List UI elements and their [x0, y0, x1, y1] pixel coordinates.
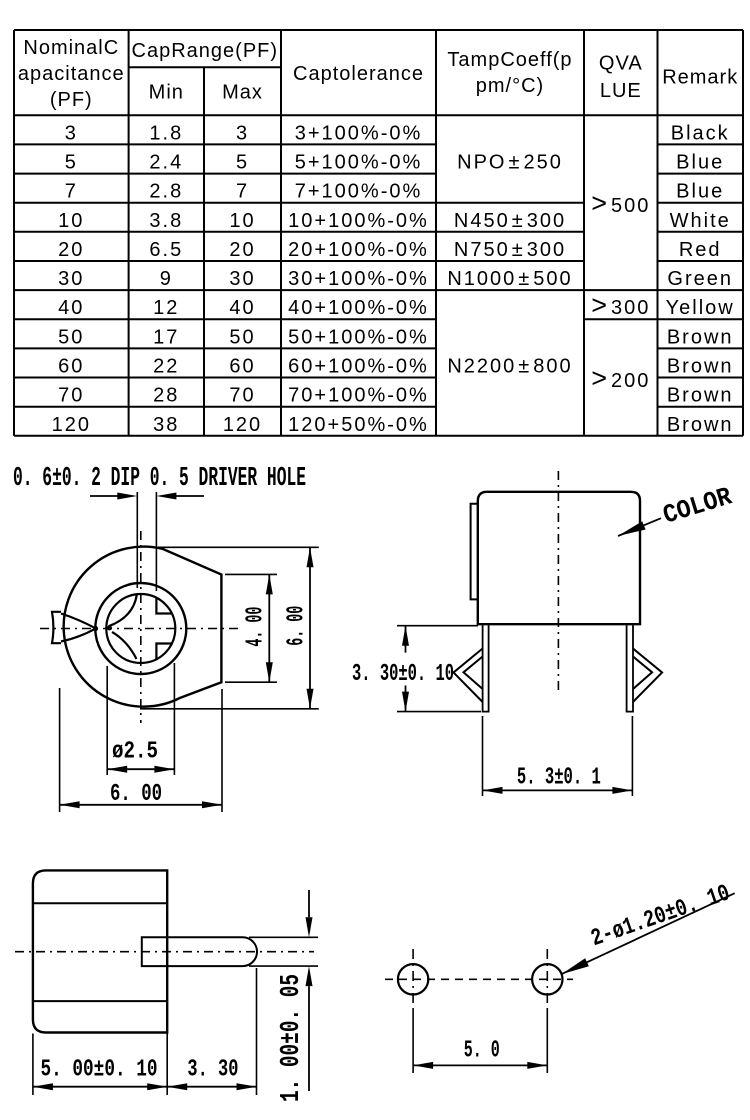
side view: body — [478, 492, 640, 624]
svg-text:50: 50 — [229, 326, 255, 348]
svg-text:1. 00±0. 05: 1. 00±0. 05 — [277, 974, 307, 1102]
svg-text:10+100%-0%: 10+100%-0% — [288, 210, 429, 232]
svg-text:7: 7 — [65, 181, 78, 203]
side view: 3.30 extension lines — [397, 625, 478, 627]
svg-text:50+100%-0%: 50+100%-0% — [288, 326, 429, 348]
bottom view: right hole vertical centerline — [546, 949, 548, 1005]
top view: dia 2.5 dimension line — [107, 768, 174, 770]
top view: extension line top of 4.00 — [225, 573, 277, 575]
svg-text:70: 70 — [229, 385, 255, 407]
svg-text:3: 3 — [236, 122, 249, 144]
svg-text:3. 30±0. 10: 3. 30±0. 10 — [352, 661, 454, 688]
side view: right wing — [633, 649, 662, 703]
svg-text:7+100%-0%: 7+100%-0% — [295, 181, 423, 203]
svg-text:120+50%-0%: 120+50%-0% — [288, 414, 429, 436]
svg-text:NominalC: NominalC — [23, 37, 119, 59]
profile view: 3.30 dimension line — [167, 1086, 256, 1088]
svg-text:2.8: 2.8 — [149, 181, 183, 203]
svg-text:40+100%-0%: 40+100%-0% — [288, 297, 429, 319]
svg-text:6. 00: 6. 00 — [110, 781, 162, 808]
top view: extension line top of 6.00 — [158, 546, 319, 548]
svg-text:60+100%-0%: 60+100%-0% — [288, 356, 429, 378]
bottom view: 5.0 dimension line — [413, 1064, 547, 1066]
svg-text:70+100%-0%: 70+100%-0% — [288, 385, 429, 407]
svg-text:17: 17 — [153, 326, 179, 348]
svg-text:60: 60 — [58, 356, 84, 378]
svg-text:50: 50 — [58, 326, 84, 348]
bottom view: extension lines — [412, 1008, 414, 1073]
top view: rotor slot right arm — [156, 598, 172, 659]
svg-text:Min: Min — [149, 82, 184, 104]
svg-text:5. 0: 5. 0 — [464, 1038, 500, 1065]
top view: extension line bottom of 6.00 — [140, 708, 319, 710]
svg-text:30: 30 — [58, 268, 84, 290]
svg-text:3: 3 — [65, 122, 78, 144]
svg-text:Green: Green — [667, 268, 733, 290]
svg-text:QVA: QVA — [599, 53, 643, 75]
svg-text:ø2.5: ø2.5 — [112, 739, 158, 766]
svg-text:28: 28 — [153, 385, 179, 407]
side view: 5.3 extension lines — [482, 716, 484, 796]
svg-text:5: 5 — [236, 152, 249, 174]
svg-text:0. 6±0. 2 DIP 0. 5 DRIVER HOLE: 0. 6±0. 2 DIP 0. 5 DRIVER HOLE — [13, 464, 306, 494]
svg-text:Blue: Blue — [676, 181, 724, 203]
side view: vertical centerline — [557, 471, 559, 692]
side view: COLOR leader — [618, 518, 661, 536]
svg-text:Black: Black — [671, 122, 730, 144]
svg-text:N2200±800: N2200±800 — [447, 356, 572, 378]
bottom view: hole spec leader — [562, 893, 735, 974]
profile view: body seam lines — [33, 902, 167, 904]
svg-text:(PF): (PF) — [50, 89, 93, 111]
svg-text:120: 120 — [52, 414, 91, 436]
top view: beak tip dot — [93, 626, 98, 631]
profile view: 5.00 extension lines — [32, 1034, 34, 1096]
svg-text:Blue: Blue — [676, 152, 724, 174]
svg-text:40: 40 — [58, 297, 84, 319]
top view: horizontal centerline — [40, 628, 238, 630]
svg-text:TampCoeff(p: TampCoeff(p — [447, 49, 572, 71]
profile view: 3.30 extension line — [256, 968, 258, 1095]
svg-text:70: 70 — [58, 385, 84, 407]
svg-text:apacitance: apacitance — [18, 63, 125, 85]
bottom view: left pin hole — [398, 964, 428, 994]
svg-text:40: 40 — [229, 297, 255, 319]
svg-text:20+100%-0%: 20+100%-0% — [288, 239, 429, 261]
svg-text:NPO±250: NPO±250 — [457, 152, 563, 174]
svg-text:20: 20 — [58, 239, 84, 261]
svg-text:Red: Red — [679, 239, 722, 261]
svg-text:4. 00: 4. 00 — [243, 607, 270, 647]
top view: dimension 4.00 line — [268, 574, 270, 682]
top view: body outline — [64, 547, 222, 707]
top view: rotor slot top-left curve — [109, 595, 137, 627]
svg-text:Captolerance: Captolerance — [293, 63, 424, 85]
profile view: body — [33, 870, 167, 1032]
svg-text:3+100%-0%: 3+100%-0% — [295, 122, 423, 144]
svg-text:22: 22 — [153, 356, 179, 378]
svg-text:6. 00: 6. 00 — [284, 606, 311, 646]
top view: 6.00 width extension lines — [59, 688, 61, 812]
svg-text:30+100%-0%: 30+100%-0% — [288, 268, 429, 290]
bottom view: horizontal centerline — [385, 978, 573, 980]
profile view: centerline — [15, 951, 314, 953]
svg-text:Yellow: Yellow — [666, 297, 735, 319]
svg-text:2.4: 2.4 — [149, 152, 183, 174]
side view: left color band tab — [471, 504, 478, 600]
top view: rotor slot bottom-left arc — [112, 632, 137, 659]
side view: 5.3 dimension line — [483, 789, 633, 791]
svg-text:12: 12 — [153, 297, 179, 319]
profile view: 1.00 dimension line — [308, 890, 310, 917]
svg-text:5. 3±0. 1: 5. 3±0. 1 — [517, 765, 601, 792]
profile view: pin — [142, 937, 257, 966]
top view: rotor ring circle — [95, 583, 186, 674]
svg-text:3.8: 3.8 — [149, 210, 183, 232]
top view: left beak bar — [52, 612, 61, 643]
top view: 6.00 width dimension line — [60, 804, 222, 806]
svg-text:5+100%-0%: 5+100%-0% — [295, 152, 423, 174]
top view: slot dimension arrows — [90, 495, 118, 497]
side view: 3.30 dimension line — [405, 626, 407, 653]
bottom view: left hole vertical centerline — [412, 949, 414, 1005]
svg-text:1.8: 1.8 — [149, 122, 183, 144]
side view: left leg — [483, 625, 489, 711]
svg-text:Brown: Brown — [667, 356, 734, 378]
side view: right leg — [627, 625, 633, 711]
svg-text:38: 38 — [153, 414, 179, 436]
svg-text:Brown: Brown — [667, 385, 734, 407]
svg-text:N1000±500: N1000±500 — [447, 268, 572, 290]
svg-text:White: White — [670, 210, 731, 232]
svg-text:5: 5 — [65, 152, 78, 174]
top view: rotor slot junction dot — [107, 626, 112, 631]
svg-text:60: 60 — [229, 356, 255, 378]
svg-text:120: 120 — [223, 414, 262, 436]
bottom view: right pin hole — [532, 964, 562, 994]
svg-text:20: 20 — [229, 239, 255, 261]
top view: left beak lower edge — [61, 629, 95, 642]
profile view: 5.00 dimension line — [33, 1086, 167, 1088]
svg-text:LUE: LUE — [600, 80, 642, 102]
svg-text:Max: Max — [222, 82, 263, 104]
top view: dimension 6.00 vertical line — [309, 547, 311, 709]
top view: vertical centerline — [140, 531, 142, 723]
svg-text:5. 00±0. 10: 5. 00±0. 10 — [41, 1057, 158, 1084]
svg-text:pm/°C): pm/°C) — [476, 75, 544, 97]
svg-text:30: 30 — [229, 268, 255, 290]
side view: left wing — [454, 649, 483, 703]
profile view: 1.00 extension lines — [249, 936, 318, 938]
svg-text:10: 10 — [58, 210, 84, 232]
svg-text:7: 7 — [236, 181, 249, 203]
top view: rotor inner circle — [106, 594, 175, 663]
svg-text:3. 30: 3. 30 — [187, 1057, 238, 1084]
svg-text:6.5: 6.5 — [149, 239, 183, 261]
svg-text:Brown: Brown — [667, 326, 734, 348]
top view: extension line bottom of 4.00 — [225, 681, 277, 683]
top view: left beak upper edge — [61, 614, 95, 629]
svg-text:10: 10 — [229, 210, 255, 232]
top view: dia 2.5 extension lines — [106, 666, 108, 775]
svg-text:CapRange(PF): CapRange(PF) — [132, 40, 279, 62]
svg-text:Remark: Remark — [662, 67, 738, 89]
svg-text:Brown: Brown — [667, 414, 734, 436]
svg-text:9: 9 — [160, 268, 173, 290]
top view: slot width extension lines — [136, 492, 138, 588]
spec table grid — [14, 30, 743, 436]
